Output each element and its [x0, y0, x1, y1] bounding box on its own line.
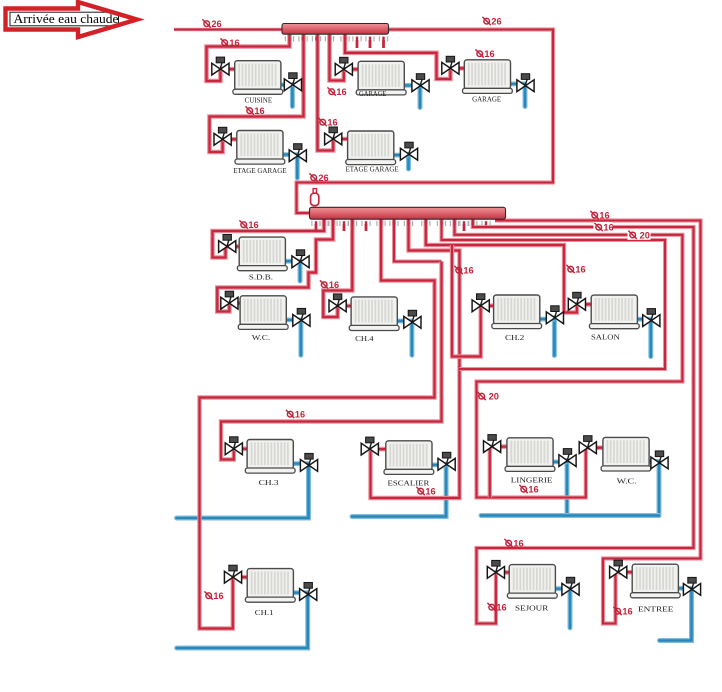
wire GARAGE-1 supply stub	[344, 67, 361, 72]
value label d16-entree diameter 16	[613, 607, 632, 617]
value label d16-sejour-top diameter 16	[504, 539, 523, 549]
wire SDB return stub	[283, 259, 300, 264]
value label d16-ch1 diameter 16	[204, 591, 223, 601]
valve SDB return valve	[292, 250, 309, 268]
svg-text:16: 16	[496, 603, 506, 613]
manifold collector 2 (main circuit)	[310, 207, 506, 219]
wire salon return (blue return pipe)	[648, 321, 653, 357]
value label d16-ch4 diameter 16	[320, 280, 339, 290]
svg-text:16: 16	[425, 487, 435, 497]
svg-text:CH.2: CH.2	[505, 333, 525, 342]
wire ch3 supply (red supply pipe)	[221, 262, 442, 460]
value label d16-salon diameter 16	[566, 265, 585, 275]
value label d16-garage-1 diameter 16	[327, 87, 346, 97]
radiator CUISINE	[233, 61, 283, 95]
value label d26-arrival diameter 26	[202, 19, 221, 29]
wire branch line L4 (red supply pipe)	[442, 217, 666, 369]
wire cuisine return (blue return pipe)	[290, 85, 295, 107]
svg-text:ETAGE GARAGE: ETAGE GARAGE	[346, 165, 400, 174]
wire CUISINE return stub	[279, 82, 293, 87]
wire ch4 supply (red supply pipe)	[323, 217, 352, 317]
valve SALON return valve	[643, 309, 660, 327]
wire GARAGE-2 supply stub	[450, 66, 466, 71]
wire lingerie return (blue return pipe)	[565, 461, 570, 516]
wire WC-2 supply stub	[588, 445, 605, 450]
svg-text:ESCALIER: ESCALIER	[388, 479, 430, 488]
value label d16-line-L2 diameter 16	[594, 222, 614, 233]
wire garage-1 return (blue return pipe)	[418, 86, 423, 108]
value label d16-lingerie diameter 16	[519, 485, 538, 495]
svg-text:W.C.: W.C.	[617, 477, 637, 486]
manifold 2 outlet connectors	[311, 221, 490, 231]
value label d16-etage-garage-2 diameter 16	[318, 118, 337, 128]
value label d20-row4 diameter 20	[477, 392, 498, 402]
valve SDB supply valve	[219, 235, 236, 253]
wire sejour supply d16 (red supply pipe)	[473, 217, 694, 624]
valve SALON supply valve	[568, 292, 585, 310]
valve CH2 supply valve	[472, 294, 489, 312]
svg-text:16: 16	[575, 265, 585, 275]
wire SALON supply stub	[577, 302, 594, 307]
wire GARAGE-2 return stub	[508, 82, 525, 87]
radiator CH1	[245, 569, 295, 603]
wire ETAGE-GARAGE-2 return stub	[392, 153, 410, 158]
valve CH1 supply valve	[224, 565, 241, 583]
wire WC-2 return stub	[647, 459, 660, 464]
svg-text:26: 26	[491, 17, 501, 27]
wire arrow-to-manifold-1 (red supply pipe)	[174, 28, 282, 32]
wire LINGERIE supply stub	[492, 444, 509, 449]
wire sdb return (blue return pipe)	[298, 262, 303, 281]
wire ch1 return (blue return pipe)	[177, 595, 308, 649]
valve CH1 return valve	[300, 583, 317, 601]
wire manifold-1-to-manifold-2 d26 (red supply pipe)	[297, 30, 554, 214]
wire etage-garage-2 supply (red supply pipe)	[318, 33, 334, 151]
valve WC-1 supply valve	[221, 291, 238, 309]
wire entree return (blue return pipe)	[660, 589, 692, 640]
svg-text:16: 16	[248, 220, 258, 230]
wire CH2 return stub	[538, 317, 555, 322]
valve CUISINE return valve	[284, 73, 301, 91]
wire ch2 branch (red supply pipe)	[452, 245, 481, 357]
radiator LINGERIE	[505, 438, 555, 472]
svg-text:GARAGE: GARAGE	[472, 95, 501, 104]
value label d16-garage-2 diameter 16	[475, 49, 494, 59]
wire ESCALIER supply stub	[370, 447, 388, 452]
radiator ETAGE-GARAGE-1	[235, 131, 285, 165]
wire GARAGE-1 return stub	[402, 83, 421, 88]
svg-text:LINGERIE: LINGERIE	[511, 476, 553, 485]
wire ch2 return (blue return pipe)	[552, 318, 557, 356]
wire ch3 return (blue return pipe)	[177, 465, 309, 518]
value label d16-sdb diameter 16	[239, 220, 258, 230]
wire CH1 supply stub	[233, 575, 250, 580]
wire ch2-salon supply (red supply pipe)	[426, 217, 577, 313]
wire ch4 return (blue return pipe)	[409, 322, 414, 355]
valve WC-2 supply valve	[579, 436, 596, 454]
valve GARAGE-2 return valve	[517, 74, 534, 92]
radiator WC-2	[601, 437, 651, 471]
radiator ESCALIER	[384, 441, 434, 475]
radiator SDB	[237, 237, 287, 271]
svg-text:16: 16	[213, 591, 223, 601]
wire ENTREE supply stub	[618, 570, 634, 575]
wire ch3 drop (red supply pipe)	[394, 217, 442, 262]
value label d20-line-L3 diameter 20	[628, 230, 651, 241]
svg-text:SALON: SALON	[591, 333, 620, 342]
svg-text:S.D.B.: S.D.B.	[249, 273, 273, 282]
value label d16-etage-garage-1 diameter 16	[245, 106, 264, 116]
wire sdb supply (red supply pipe)	[213, 217, 325, 258]
svg-text:CUISINE: CUISINE	[245, 96, 273, 105]
wire lingerie-wc2 return run (blue return pipe)	[481, 513, 659, 518]
svg-text:GARAGE: GARAGE	[359, 89, 387, 98]
wire WC-1 supply stub	[229, 301, 242, 306]
valve GARAGE-1 return valve	[412, 74, 429, 92]
wire LINGERIE return stub	[551, 459, 568, 464]
wire lingerie riser (red supply pipe)	[488, 447, 492, 498]
value label d16-ch2 diameter 16	[454, 266, 473, 276]
valve ENTREE supply valve	[610, 560, 627, 578]
wire CH4 supply stub	[338, 304, 354, 309]
wire etage-garage-1 supply (red supply pipe)	[210, 33, 304, 152]
wire CH3 supply stub	[234, 446, 250, 451]
radiator CH2	[492, 295, 542, 329]
value label d16-line-L1 diameter 16	[590, 211, 609, 221]
wire WC-1 return stub	[284, 317, 301, 322]
svg-text:CH.3: CH.3	[259, 478, 279, 487]
wire ENTREE return stub	[676, 586, 692, 591]
radiator CH3	[245, 440, 295, 474]
value label d16-cuisine diameter 16	[220, 38, 239, 48]
radiator SALON	[589, 295, 639, 329]
value label d16-ch3-line diameter 16	[286, 410, 305, 420]
svg-text:16: 16	[463, 266, 473, 276]
wire garage-2 return (blue return pipe)	[523, 86, 528, 107]
svg-text:16: 16	[603, 223, 613, 233]
valve ENTREE return valve	[683, 577, 700, 595]
wire cuisine supply (red supply pipe)	[207, 33, 290, 81]
svg-text:SEJOUR: SEJOUR	[515, 604, 548, 613]
valve ESCALIER return valve	[438, 452, 455, 470]
wire etage-garage-1 return (blue return pipe)	[295, 156, 300, 178]
radiator CH4	[349, 297, 399, 331]
wire ETAGE-GARAGE-2 supply stub	[333, 137, 350, 142]
svg-text:26: 26	[318, 173, 328, 183]
valve CH4 supply valve	[329, 294, 346, 312]
wire sejour return (blue return pipe)	[568, 589, 573, 628]
valve GARAGE-2 supply valve	[442, 56, 459, 74]
wire CH4 return stub	[395, 319, 412, 324]
svg-text:26: 26	[211, 19, 221, 29]
wire ch1 supply d16 (red supply pipe)	[200, 217, 435, 629]
radiator ENTREE	[630, 564, 680, 598]
svg-text:16: 16	[528, 485, 538, 495]
wire SEJOUR return stub	[553, 586, 570, 591]
value label d26-top-right diameter 26	[482, 17, 501, 27]
wire entree supply d16 (red supply pipe)	[495, 221, 701, 624]
svg-text:16: 16	[484, 49, 494, 59]
svg-text:CH.4: CH.4	[355, 334, 374, 343]
svg-text:16: 16	[327, 118, 337, 128]
valve LINGERIE supply valve	[484, 435, 501, 453]
radiator GARAGE-1	[356, 61, 406, 95]
valve SEJOUR supply valve	[487, 560, 504, 578]
svg-text:16: 16	[622, 607, 632, 617]
wire wc-1 supply (red supply pipe)	[217, 217, 333, 312]
svg-text:16: 16	[295, 410, 305, 420]
wire CH2 supply stub	[481, 303, 496, 308]
radiator ETAGE-GARAGE-2	[346, 131, 396, 165]
svg-text:20: 20	[640, 230, 650, 240]
manifold 1 outlet connectors	[285, 36, 388, 48]
valve WC-1 return valve	[293, 308, 310, 326]
wire ETAGE-GARAGE-1 supply stub	[223, 137, 240, 142]
wire escalier supply (red supply pipe)	[371, 217, 460, 498]
valve WC-2 return valve	[651, 451, 668, 469]
svg-text:Arrivée eau chaude: Arrivée eau chaude	[14, 12, 119, 26]
valve CH3 supply valve	[225, 437, 242, 455]
valve ETAGE-GARAGE-1 return valve	[289, 144, 306, 162]
wire SALON return stub	[635, 317, 651, 322]
wire CH3 return stub	[291, 461, 309, 466]
wire ESCALIER return stub	[430, 462, 447, 467]
wire garage-1 supply (red supply pipe)	[330, 33, 344, 81]
radiator SEJOUR	[507, 565, 557, 599]
svg-text:16: 16	[254, 106, 264, 116]
valve CH4 return valve	[404, 310, 421, 328]
valve CH2 return valve	[546, 306, 563, 324]
svg-text:CH.1: CH.1	[255, 608, 274, 617]
valve LINGERIE return valve	[559, 449, 576, 467]
valve ETAGE-GARAGE-2 supply valve	[325, 127, 342, 145]
wire escalier return (blue return pipe)	[352, 464, 446, 516]
wire lingerie-wc2 supply d20 (red supply pipe)	[455, 217, 683, 498]
wire wc-2 return (blue return pipe)	[657, 463, 662, 516]
valve ETAGE-GARAGE-1 supply valve	[214, 127, 231, 145]
svg-text:16: 16	[329, 280, 339, 290]
air vent (purger) on manifold 2	[311, 189, 319, 206]
wire CUISINE supply stub	[220, 67, 237, 72]
svg-text:16: 16	[599, 211, 609, 221]
svg-text:ETAGE GARAGE: ETAGE GARAGE	[233, 166, 287, 175]
manifold collector 1 (garage circuit)	[282, 24, 389, 35]
svg-text:20: 20	[489, 392, 499, 402]
valve SEJOUR return valve	[562, 577, 579, 595]
valve CUISINE supply valve	[212, 57, 229, 75]
valve CH3 return valve	[300, 453, 317, 471]
value label d16-sejour-left diameter 16	[487, 603, 506, 613]
value label d16-escalier diameter 16	[416, 487, 435, 497]
wire SDB supply stub	[227, 244, 241, 249]
wire garage-2 supply (red supply pipe)	[345, 33, 450, 79]
svg-text:16: 16	[336, 87, 346, 97]
valve ETAGE-GARAGE-2 return valve	[400, 142, 417, 160]
radiator WC-1	[238, 296, 288, 330]
wire CH1 return stub	[291, 590, 308, 595]
wire etage-garage-2 return (blue return pipe)	[406, 154, 411, 169]
value label d26-manifold-2 diameter 26	[309, 173, 328, 183]
radiator GARAGE-2	[463, 60, 513, 94]
wire ETAGE-GARAGE-1 return stub	[281, 152, 298, 157]
svg-text:ENTREE: ENTREE	[638, 605, 674, 614]
svg-text:16: 16	[513, 539, 523, 549]
valve GARAGE-1 supply valve	[335, 57, 352, 75]
valve ESCALIER supply valve	[361, 437, 378, 455]
svg-text:W.C.: W.C.	[252, 333, 270, 342]
arrival arrow "Arrivee eau chaude"	[6, 2, 138, 37]
wire wc-1 return (blue return pipe)	[298, 320, 303, 355]
wire SEJOUR supply stub	[496, 570, 512, 575]
svg-text:16: 16	[229, 38, 239, 48]
